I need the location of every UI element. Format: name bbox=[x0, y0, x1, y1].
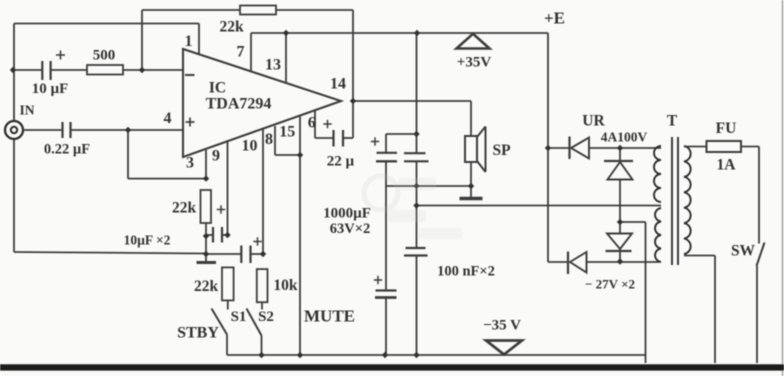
svg-text:22k: 22k bbox=[219, 19, 244, 36]
svg-text:3: 3 bbox=[186, 155, 194, 172]
svg-text:7: 7 bbox=[237, 44, 245, 61]
svg-text:+E: +E bbox=[544, 9, 565, 28]
svg-text:− 27V ×2: − 27V ×2 bbox=[585, 277, 635, 292]
svg-text:1: 1 bbox=[185, 33, 193, 50]
svg-text:15: 15 bbox=[279, 124, 295, 141]
svg-text:SW: SW bbox=[731, 243, 756, 260]
svg-text:100 nF×2: 100 nF×2 bbox=[437, 264, 495, 280]
svg-text:IC: IC bbox=[209, 80, 226, 97]
svg-text:22k: 22k bbox=[172, 200, 197, 217]
svg-text:0.22 µF: 0.22 µF bbox=[44, 142, 90, 158]
svg-text:1A: 1A bbox=[717, 157, 737, 174]
svg-text:TDA7294: TDA7294 bbox=[206, 96, 272, 113]
svg-text:22k: 22k bbox=[194, 278, 219, 295]
svg-text:1000µF: 1000µF bbox=[323, 206, 371, 222]
svg-text:10 µF: 10 µF bbox=[32, 81, 69, 97]
svg-text:4A100V: 4A100V bbox=[601, 130, 648, 145]
svg-text:+35V: +35V bbox=[457, 55, 492, 71]
svg-text:10: 10 bbox=[242, 138, 258, 155]
svg-text:T: T bbox=[667, 113, 678, 130]
svg-text:MUTE: MUTE bbox=[304, 307, 355, 326]
svg-text:9: 9 bbox=[212, 148, 220, 165]
svg-text:IN: IN bbox=[19, 103, 34, 118]
svg-text:500: 500 bbox=[93, 48, 116, 64]
svg-text:SP: SP bbox=[492, 142, 511, 159]
svg-text:STBY: STBY bbox=[177, 325, 219, 342]
svg-text:4: 4 bbox=[164, 110, 172, 127]
svg-text:−35 V: −35 V bbox=[483, 318, 521, 334]
svg-text:10k: 10k bbox=[273, 277, 298, 294]
svg-text:S1: S1 bbox=[231, 309, 247, 325]
svg-text:63V×2: 63V×2 bbox=[330, 221, 370, 237]
svg-text:S2: S2 bbox=[258, 309, 274, 325]
svg-text:13: 13 bbox=[265, 57, 281, 74]
svg-text:FU: FU bbox=[716, 120, 737, 137]
svg-text:10µF ×2: 10µF ×2 bbox=[124, 233, 171, 248]
svg-text:6: 6 bbox=[308, 115, 316, 132]
svg-text:8: 8 bbox=[265, 131, 273, 148]
svg-text:UR: UR bbox=[582, 113, 605, 130]
svg-text:14: 14 bbox=[330, 76, 346, 93]
svg-text:22 µ: 22 µ bbox=[327, 154, 355, 170]
